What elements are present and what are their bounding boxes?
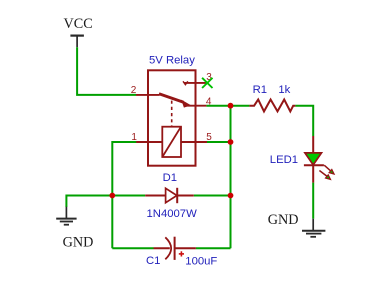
wire diode D1 cathode to right column — [194, 195, 231, 197]
junction dot right column / diode row — [228, 193, 234, 199]
svg-text:4: 4 — [206, 96, 212, 107]
svg-text:5: 5 — [206, 132, 212, 143]
svg-text:VCC: VCC — [64, 16, 93, 32]
wire capacitor C1 to right column — [196, 247, 231, 249]
ground symbol left — [56, 207, 76, 225]
relay coil-switch dashed link — [171, 101, 173, 127]
svg-text:GND: GND — [268, 212, 299, 228]
power symbol VCC — [70, 36, 84, 48]
no-connect X on pin 3 — [202, 78, 212, 88]
wire bottom row to capacitor C1 — [112, 247, 153, 249]
wire VCC to relay pin 2 — [77, 47, 136, 95]
relay pin 3 stub — [185, 82, 208, 84]
capacitor C1 — [154, 237, 196, 260]
wire relay pin 1 to left column — [112, 142, 136, 248]
wire right column — [230, 106, 232, 249]
wire relay pin 4 to resistor R1 — [206, 105, 249, 107]
wire junction to left ground — [66, 196, 112, 208]
wire resistor R1 to LED1 anode — [295, 106, 313, 136]
svg-text:2: 2 — [131, 85, 137, 96]
svg-text:1k: 1k — [278, 84, 290, 96]
wire relay pin 5 to right column — [207, 141, 231, 143]
svg-text:1: 1 — [131, 132, 137, 143]
relay coil — [162, 127, 181, 157]
junction dot at relay pin 1 column / diode row — [109, 193, 115, 199]
LED LED1 — [304, 136, 334, 183]
relay pin 4 stub — [184, 105, 206, 107]
junction dot right column / pin 5 row — [228, 139, 234, 145]
junction dot right column / resistor row — [228, 103, 234, 109]
svg-text:1N4007W: 1N4007W — [147, 208, 198, 220]
relay switch armature — [159, 94, 191, 108]
ground symbol right — [302, 219, 325, 237]
wire left junction to diode D1 anode — [112, 195, 145, 197]
relay pin 2 stub — [136, 94, 160, 96]
relay body (5V Relay) — [148, 70, 196, 165]
svg-text:LED1: LED1 — [270, 154, 298, 166]
relay pin 1 stub — [136, 141, 162, 143]
svg-text:C1: C1 — [146, 255, 160, 267]
wire LED1 cathode to right ground — [312, 183, 314, 219]
svg-text:GND: GND — [63, 234, 94, 250]
svg-text:R1: R1 — [253, 84, 267, 96]
svg-text:5V Relay: 5V Relay — [149, 55, 195, 67]
resistor R1 — [249, 100, 295, 112]
relay pin 5 stub — [181, 141, 207, 143]
svg-text:100uF: 100uF — [185, 255, 217, 267]
svg-text:D1: D1 — [163, 172, 177, 184]
relay contact for pin 3 — [183, 81, 188, 84]
diode D1 — [145, 188, 194, 203]
